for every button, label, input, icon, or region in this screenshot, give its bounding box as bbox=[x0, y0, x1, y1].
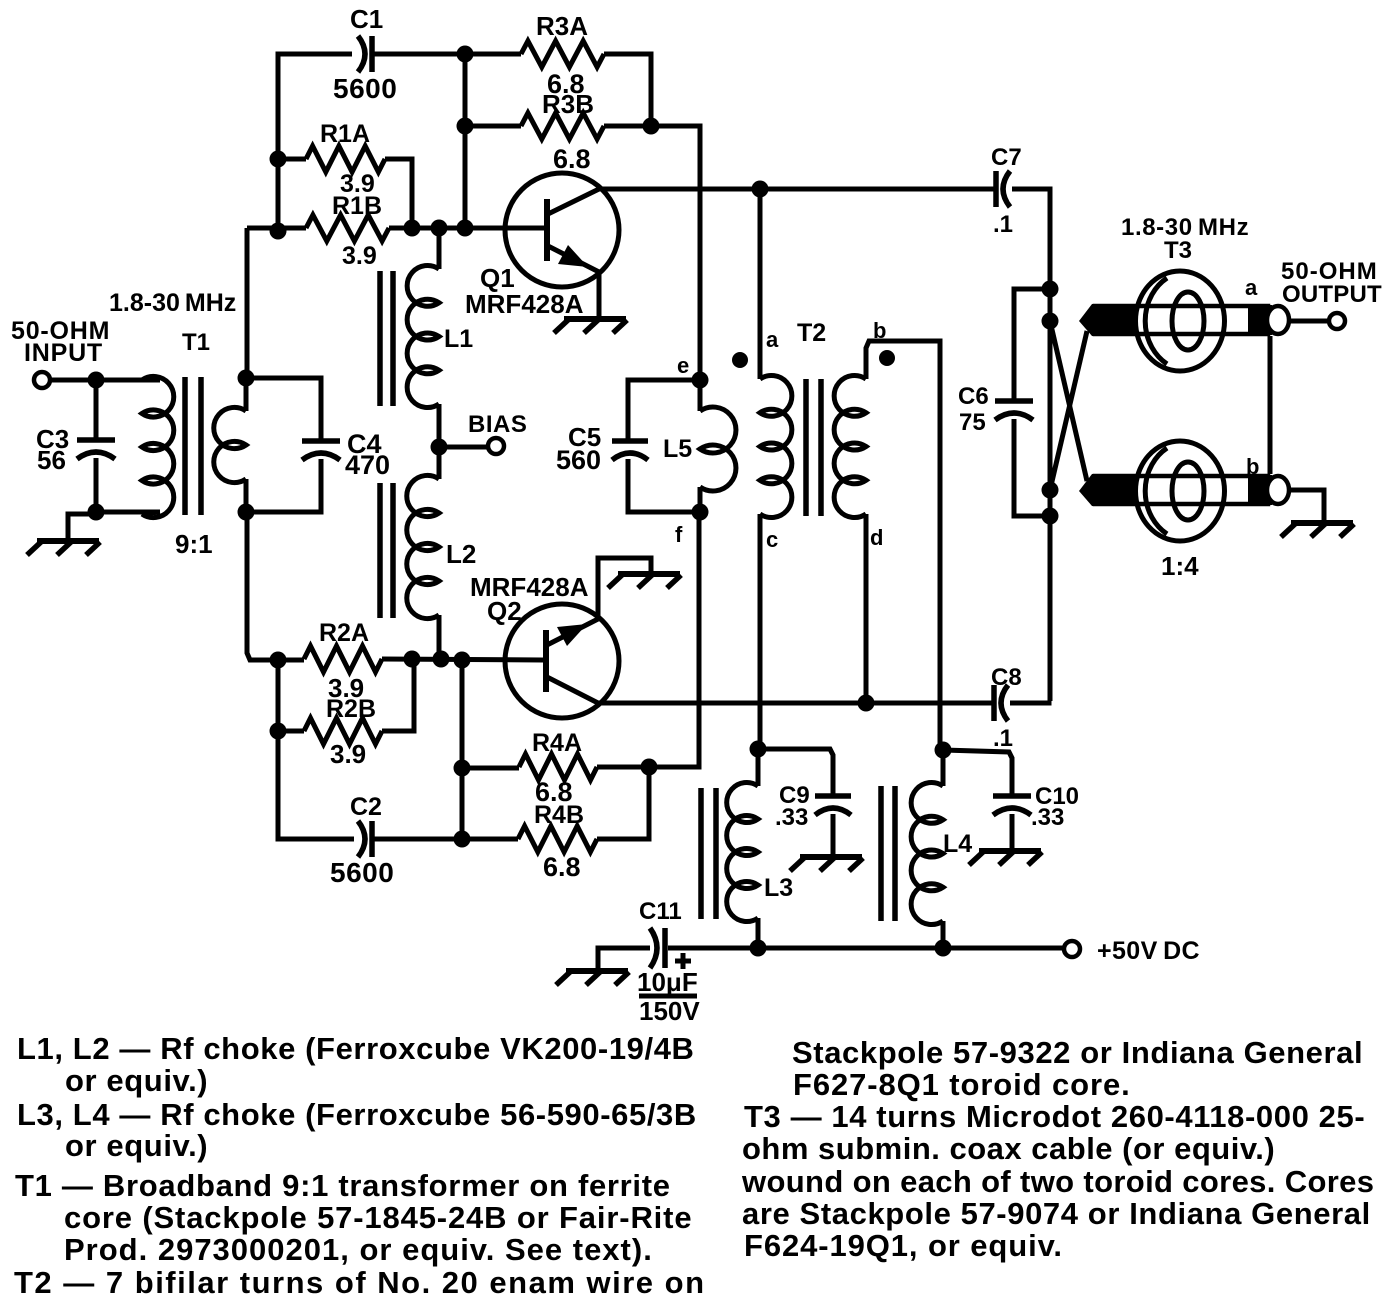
wire C5/L5 top rail bbox=[628, 380, 700, 382]
wire left bus upper bbox=[245, 228, 250, 378]
phasing dot T2 secondary bbox=[879, 350, 895, 366]
wire R4A left lead bbox=[462, 766, 519, 771]
capacitor C10 bbox=[993, 796, 1031, 815]
wire R2A left lead bbox=[278, 658, 304, 663]
svg-text:150V: 150V bbox=[639, 996, 700, 1026]
svg-text:INPUT: INPUT bbox=[24, 339, 103, 367]
wire C2 left branch bbox=[278, 731, 354, 839]
node L3/supply rail bbox=[750, 940, 767, 957]
wire T1 primary bottom exit bbox=[142, 512, 160, 514]
wire T2 d lead bbox=[864, 514, 869, 703]
node R3B left junction bbox=[457, 118, 474, 135]
svg-text:c: c bbox=[766, 527, 778, 552]
coax rod upper outline bbox=[1095, 306, 1268, 334]
wire L1 top lead bbox=[437, 228, 442, 269]
ground input bbox=[27, 541, 100, 555]
resistor R4B bbox=[518, 826, 597, 852]
wire R2B left lead bbox=[278, 729, 304, 734]
crossover wire to upper coax bbox=[1050, 331, 1087, 490]
svg-text:L1, L2 — Rf choke (Ferroxcube: L1, L2 — Rf choke (Ferroxcube VK200-19/4… bbox=[17, 1031, 695, 1066]
svg-text:.33: .33 bbox=[775, 804, 808, 831]
svg-text:1:4: 1:4 bbox=[1161, 551, 1199, 581]
wire R3A right lead bbox=[604, 54, 651, 126]
node crossover lower diag bbox=[1042, 482, 1059, 499]
wire C7 to crossover bus bbox=[1012, 189, 1050, 701]
wire T2 a lead bbox=[758, 189, 763, 379]
wire Q1 emitter to ground bbox=[597, 272, 602, 318]
capacitor C3 bbox=[77, 440, 115, 459]
resistor R1B bbox=[306, 215, 389, 241]
transistor Q1 body bbox=[505, 173, 619, 287]
svg-text:L3, L4 — Rf choke (Ferroxcube: L3, L4 — Rf choke (Ferroxcube 56-590-65/… bbox=[17, 1097, 697, 1132]
transistor Q1 emitter arrow bbox=[558, 245, 588, 267]
svg-text:MRF428A: MRF428A bbox=[465, 289, 584, 319]
wire C1 junction drop bbox=[463, 54, 468, 228]
svg-text:560: 560 bbox=[556, 445, 601, 475]
wire bottom rail to T1 primary bbox=[96, 510, 160, 515]
svg-text:Prod. 2973000201, or equiv. Se: Prod. 2973000201, or equiv. See text). bbox=[64, 1232, 653, 1267]
wire C3 bottom lead bbox=[94, 458, 99, 512]
coax lower left ferrule bbox=[1079, 474, 1137, 506]
svg-text:F624-19Q1, or equiv.: F624-19Q1, or equiv. bbox=[744, 1228, 1063, 1263]
node R4A/R4B right junction bbox=[641, 759, 658, 776]
node R2B left bbox=[270, 723, 287, 740]
toroid core lower outer ring bbox=[1136, 441, 1225, 541]
coax lower end cap bbox=[1267, 476, 1289, 504]
transistor Q2 body bbox=[505, 604, 619, 718]
node C3/T1 bottom junction bbox=[88, 504, 105, 521]
svg-text:L5: L5 bbox=[663, 435, 692, 463]
transistor Q1 base bar bbox=[544, 199, 550, 261]
wire R3B right lead bbox=[604, 124, 651, 129]
wire BIAS lead bbox=[439, 445, 488, 450]
resistor R2A bbox=[304, 646, 382, 672]
wire Q2 emitter bbox=[547, 619, 598, 645]
svg-text:b: b bbox=[1246, 454, 1259, 479]
resistor R3A bbox=[521, 41, 604, 67]
ground T3 output bbox=[1281, 523, 1354, 537]
svg-text:wound on each of two toroid co: wound on each of two toroid cores. Cores bbox=[741, 1164, 1374, 1199]
resistor R4A bbox=[519, 754, 597, 780]
wire L5 bottom stub bbox=[698, 487, 703, 512]
node R4A left bbox=[454, 760, 471, 777]
wire L4 bottom lead bbox=[941, 921, 946, 948]
node L4/C10 junction bbox=[935, 742, 952, 759]
node L1/base row bbox=[431, 220, 448, 237]
svg-text:T3: T3 bbox=[1164, 237, 1192, 264]
ground C9 bbox=[790, 857, 863, 871]
toroid core upper inner ring bbox=[1172, 292, 1204, 350]
wire T1 secondary bottom lead bbox=[244, 479, 249, 512]
wire T2 c lead bbox=[758, 514, 763, 749]
transformer T1 secondary winding bbox=[214, 407, 246, 482]
transformer T1 primary winding bbox=[142, 376, 174, 517]
svg-text:5600: 5600 bbox=[333, 73, 397, 104]
node T1 secondary bottom bbox=[238, 504, 255, 521]
wire R2B right lead bbox=[382, 659, 414, 731]
toroid core upper outer ring bbox=[1136, 271, 1225, 371]
wire Q2 collector bbox=[547, 677, 598, 703]
wire C3 top lead bbox=[94, 380, 99, 440]
wire R1A right lead bbox=[385, 159, 412, 228]
svg-text:T1 — Broadband 9:1 transformer: T1 — Broadband 9:1 transformer on ferrit… bbox=[15, 1168, 671, 1203]
toroid core upper rim bbox=[1145, 278, 1167, 364]
svg-text:or equiv.): or equiv.) bbox=[65, 1128, 208, 1163]
node R1A left bbox=[270, 151, 287, 168]
node R3A/R3B right junction bbox=[643, 118, 660, 135]
svg-text:5600: 5600 bbox=[330, 857, 394, 888]
wire C6 top stub bbox=[1014, 289, 1050, 402]
wire C10 branch bbox=[943, 750, 1012, 796]
node crossover top/C6 bbox=[1042, 281, 1059, 298]
inductor L2 bbox=[407, 475, 439, 618]
wire C8 to crossover bus bbox=[1010, 701, 1049, 703]
capacitor C11 bbox=[650, 928, 665, 968]
toroid core lower rim bbox=[1145, 448, 1167, 534]
coax rod lower outline bbox=[1095, 476, 1268, 504]
wire L2 top lead bbox=[437, 447, 442, 479]
svg-text:470: 470 bbox=[345, 450, 390, 480]
node R2B right/base row bbox=[404, 651, 421, 668]
wire L2 bottom lead bbox=[437, 615, 442, 659]
phasing dot T2 primary bbox=[732, 352, 748, 368]
node crossover upper diag bbox=[1042, 313, 1059, 330]
wire C5 bottom lead bbox=[628, 459, 700, 512]
wire C1 left branch bbox=[278, 54, 352, 231]
svg-text:1.8-30 MHz: 1.8-30 MHz bbox=[109, 289, 236, 317]
resistor R3B bbox=[521, 113, 604, 139]
wire to input ground bbox=[68, 512, 96, 540]
coax lower right ferrule bbox=[1248, 475, 1272, 505]
svg-text:C11: C11 bbox=[639, 898, 682, 925]
inductor L2 core bbox=[380, 483, 393, 618]
svg-text:L2: L2 bbox=[446, 539, 476, 569]
svg-text:e: e bbox=[677, 353, 689, 378]
node L4/supply rail bbox=[935, 940, 952, 957]
coax upper end cap bbox=[1267, 306, 1289, 334]
inductor L3 bbox=[727, 783, 758, 922]
svg-text:L4: L4 bbox=[943, 830, 972, 858]
inductor L5 bbox=[700, 407, 736, 491]
resistor R1A bbox=[306, 146, 385, 172]
wire T1 secondary top lead bbox=[244, 378, 249, 411]
node L5 bottom bbox=[692, 504, 709, 521]
svg-text:F627-8Q1 toroid core.: F627-8Q1 toroid core. bbox=[793, 1067, 1131, 1102]
svg-text:core (Stackpole 57-1845-24B or: core (Stackpole 57-1845-24B or Fair-Rite bbox=[64, 1200, 692, 1235]
wire R1A left lead bbox=[278, 157, 306, 162]
wire coax shield link bbox=[1268, 336, 1273, 474]
svg-text:d: d bbox=[870, 525, 883, 550]
svg-text:OUTPUT: OUTPUT bbox=[1282, 281, 1382, 308]
svg-text:56: 56 bbox=[37, 445, 66, 475]
crossover wire to lower coax bbox=[1050, 321, 1087, 481]
inductor L3 core bbox=[701, 788, 716, 919]
svg-text:+50V DC: +50V DC bbox=[1097, 937, 1200, 965]
wire C11 to ground bbox=[598, 948, 650, 970]
wire R4 junction to L5 bus bbox=[649, 513, 699, 767]
svg-text:T2 — 7 bifilar turns of No. 20: T2 — 7 bifilar turns of No. 20 enam wire… bbox=[14, 1265, 706, 1300]
label plus polarity of C11 bbox=[675, 953, 691, 969]
wire input to T1 bbox=[50, 378, 160, 383]
wire T2 b lead bbox=[866, 341, 940, 750]
capacitor C5 bbox=[612, 441, 648, 460]
wire C9 branch bbox=[758, 749, 833, 797]
svg-text:C1: C1 bbox=[350, 4, 383, 34]
terminal BIAS bbox=[488, 438, 504, 454]
svg-text:a: a bbox=[1245, 275, 1258, 300]
wire R4B right lead bbox=[597, 767, 649, 839]
node T2 a junction bbox=[752, 181, 769, 198]
wire left bus lower bbox=[247, 512, 278, 660]
wire R1B to Q1 base bbox=[389, 226, 544, 231]
wire Q1 emitter bbox=[548, 246, 599, 272]
wire C4 top rail bbox=[246, 378, 321, 441]
wire C2 to R4B bbox=[372, 837, 518, 842]
capacitor C8 bbox=[994, 685, 1008, 721]
capacitor C6 bbox=[995, 401, 1033, 420]
wire C10 to ground bbox=[1010, 814, 1015, 850]
svg-text:a: a bbox=[766, 327, 779, 352]
svg-text:are Stackpole 57-9074 or India: are Stackpole 57-9074 or Indiana General bbox=[742, 1196, 1371, 1231]
transformer T2 core bbox=[806, 379, 821, 516]
inductor L4 core bbox=[881, 786, 895, 921]
svg-text:ohm submin. coax cable (or equ: ohm submin. coax cable (or equiv.) bbox=[742, 1131, 1275, 1166]
svg-text:C2: C2 bbox=[350, 793, 382, 821]
svg-text:L3: L3 bbox=[764, 874, 793, 902]
wire R2A to Q2 base bbox=[382, 659, 543, 660]
svg-text:R4A: R4A bbox=[532, 729, 582, 757]
capacitor C1 bbox=[358, 36, 372, 72]
node L5 top bbox=[692, 372, 709, 389]
inductor L1 bbox=[407, 265, 439, 407]
node R2 left junction bbox=[270, 652, 287, 669]
svg-text:10μF: 10μF bbox=[637, 967, 698, 997]
svg-text:L1: L1 bbox=[444, 325, 473, 353]
svg-text:T3 — 14 turns Microdot 260-411: T3 — 14 turns Microdot 260-4118-000 25- bbox=[744, 1099, 1365, 1134]
wire R2B left branch bbox=[276, 660, 281, 731]
svg-text:3.9: 3.9 bbox=[330, 739, 366, 769]
node input/C3 junction bbox=[88, 372, 105, 389]
wire Q2 collector rail bbox=[598, 701, 992, 706]
svg-text:6.8: 6.8 bbox=[543, 852, 581, 882]
svg-text:R1A: R1A bbox=[320, 120, 370, 148]
node L2/base row bbox=[433, 651, 450, 668]
wire R3B left lead bbox=[465, 124, 521, 129]
wire coax upper to output bbox=[1289, 319, 1327, 324]
wire C5 top lead bbox=[626, 380, 631, 441]
capacitor C4 bbox=[302, 441, 340, 460]
node crossover bottom/C6 bbox=[1042, 508, 1059, 525]
ground C11 bbox=[556, 971, 629, 985]
ground Q2 emitter bbox=[608, 574, 681, 588]
coax upper right ferrule bbox=[1248, 305, 1272, 335]
svg-text:Q2: Q2 bbox=[487, 596, 522, 626]
svg-text:or equiv.): or equiv.) bbox=[65, 1063, 208, 1098]
underline of C11 value bbox=[639, 994, 697, 999]
toroid core lower inner ring bbox=[1172, 462, 1204, 520]
wire L1 bottom lead bbox=[437, 404, 442, 447]
wire C9 to ground bbox=[831, 814, 836, 856]
svg-text:f: f bbox=[675, 522, 683, 547]
transistor Q2 base bar bbox=[543, 630, 549, 692]
resistor R2B bbox=[304, 718, 382, 744]
svg-text:9:1: 9:1 bbox=[175, 529, 213, 559]
terminal 50-OHM OUTPUT bbox=[1329, 313, 1345, 329]
wire L5 top stub bbox=[698, 380, 703, 411]
node R1B left bbox=[270, 223, 287, 240]
wire R4A right lead bbox=[597, 765, 649, 770]
svg-text:Stackpole 57-9322 or Indiana G: Stackpole 57-9322 or Indiana General bbox=[792, 1035, 1363, 1070]
wire coax lower to ground bbox=[1289, 490, 1324, 522]
ground C10 bbox=[969, 851, 1042, 865]
node L3/C9 junction bbox=[750, 741, 767, 758]
svg-text:R3B: R3B bbox=[542, 89, 594, 119]
node C1-bus/base row bbox=[457, 220, 474, 237]
wire supply rail bbox=[668, 946, 1063, 951]
capacitor C2 bbox=[358, 821, 372, 857]
svg-text:C8: C8 bbox=[991, 664, 1022, 691]
svg-text:BIAS: BIAS bbox=[468, 411, 527, 438]
wire Q1 base row bbox=[247, 226, 306, 231]
svg-text:C7: C7 bbox=[991, 144, 1022, 171]
capacitor C9 bbox=[815, 796, 851, 815]
inductor L1 core bbox=[380, 271, 393, 406]
svg-text:C6: C6 bbox=[958, 383, 989, 410]
svg-text:.1: .1 bbox=[993, 725, 1013, 752]
wire C1 to R3A bbox=[372, 52, 521, 57]
node R4 bus/base row bbox=[454, 652, 471, 669]
node T2 d / collector rail bbox=[858, 695, 875, 712]
svg-text:T1: T1 bbox=[182, 329, 210, 356]
svg-text:.33: .33 bbox=[1031, 804, 1064, 831]
wire Q2 emitter to ground bbox=[598, 558, 651, 619]
svg-text:75: 75 bbox=[959, 409, 986, 436]
wire C4 bottom lead bbox=[246, 459, 321, 512]
wire Q1 collector rail bbox=[599, 187, 994, 192]
wire L3 bottom lead bbox=[756, 918, 761, 947]
wire C6 bottom stub bbox=[1014, 419, 1050, 516]
node BIAS junction bbox=[431, 439, 448, 456]
coax upper left ferrule bbox=[1079, 304, 1137, 336]
svg-text:3.9: 3.9 bbox=[342, 242, 377, 270]
wire L3 top lead bbox=[756, 749, 761, 786]
wire T1 primary top entry bbox=[142, 378, 150, 383]
transformer T2 secondary winding bbox=[834, 375, 866, 517]
svg-text:6.8: 6.8 bbox=[553, 144, 591, 174]
node R1A/base row bbox=[404, 220, 421, 237]
terminal +50VDC bbox=[1064, 941, 1080, 957]
capacitor C7 bbox=[996, 171, 1010, 207]
wire Q1 collector bbox=[548, 189, 599, 214]
wire L4 top lead bbox=[941, 750, 946, 786]
transformer T1 core bbox=[185, 377, 201, 515]
transistor Q2 emitter arrow bbox=[557, 624, 587, 646]
ground Q1 emitter bbox=[554, 319, 627, 333]
svg-text:.1: .1 bbox=[993, 211, 1013, 238]
wire R3B junction to L5 bus bbox=[651, 126, 700, 380]
input terminal bbox=[34, 372, 50, 388]
wire R4 left bus bbox=[460, 660, 465, 839]
svg-text:R3A: R3A bbox=[536, 11, 588, 41]
node C2/R4B junction bbox=[454, 831, 471, 848]
svg-text:T2: T2 bbox=[797, 319, 826, 347]
inductor L4 bbox=[911, 782, 943, 924]
node T1 secondary top bbox=[238, 370, 255, 387]
transformer T2 primary winding bbox=[760, 375, 792, 517]
node C1/R3A junction bbox=[457, 46, 474, 63]
